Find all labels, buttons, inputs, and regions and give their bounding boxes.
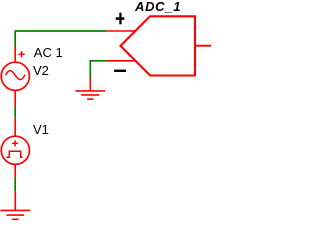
voltage source V2 (AC)	[1, 47, 29, 108]
voltage source V1 (pulse)	[1, 118, 29, 177]
ground (at ADC - input)	[75, 78, 105, 100]
label V2	[33, 63, 49, 78]
node - input label	[114, 70, 126, 72]
op-amp U1 ADC_1	[106, 16, 211, 75]
label ADC_1	[135, 0, 181, 14]
node + input label	[116, 13, 125, 25]
label V1	[33, 122, 49, 137]
wire	[15, 31, 106, 47]
wire	[14, 177, 16, 191]
label AC 1	[34, 45, 63, 60]
wire	[14, 108, 16, 118]
wire	[90, 61, 106, 78]
ground (bottom, under V1)	[0, 191, 30, 219]
